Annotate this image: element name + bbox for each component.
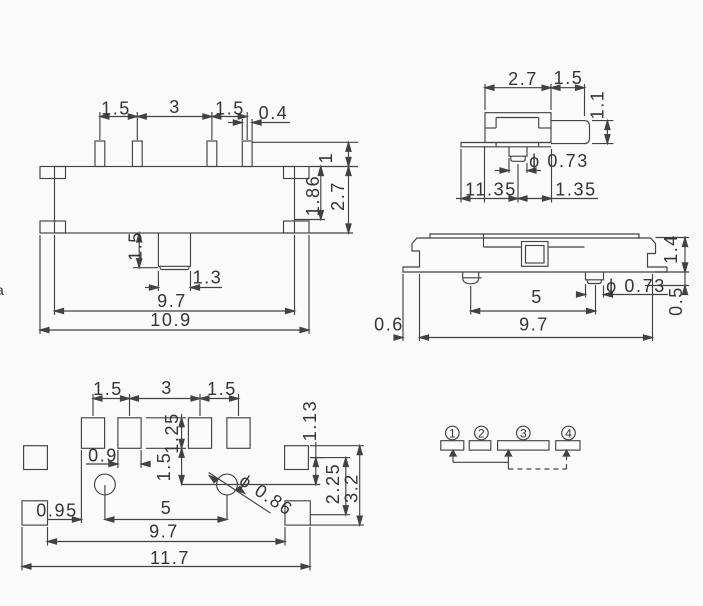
dimension 11.7 footprint [22, 527, 310, 571]
svg-text:1.3: 1.3 [193, 268, 223, 288]
side view slider boss inner [526, 246, 545, 264]
front view mounting tab top-right [284, 167, 310, 179]
dimension 1.86 body [295, 167, 326, 220]
schematic terminal 3 [498, 441, 549, 450]
schematic pin number 1 [446, 426, 460, 440]
dimension 9.7 side view [420, 274, 653, 341]
footprint pad 2 [118, 418, 141, 449]
dimension dia 0.86 hole leader [209, 470, 297, 520]
front view mounting tab bottom-left [40, 221, 66, 233]
svg-text:1.5: 1.5 [93, 379, 123, 399]
schematic pin number 4 [562, 426, 576, 440]
side view right peg [586, 272, 604, 284]
svg-text:ϕ 0.86: ϕ 0.86 [236, 470, 297, 520]
scan artifact left edge [0, 282, 4, 298]
dimension 1.5 footprint left [93, 379, 130, 416]
dimension 1.13 side pad to hole [300, 400, 325, 485]
svg-text:1: 1 [449, 427, 456, 441]
svg-text:11.35: 11.35 [465, 180, 517, 200]
svg-text:1.25: 1.25 [162, 412, 182, 453]
dimension 1.4 side view [655, 234, 689, 272]
dimension 1.25 pad height [146, 412, 186, 453]
end view body [485, 113, 551, 143]
svg-text:1.5: 1.5 [101, 99, 131, 119]
schematic pin number 3 [517, 426, 531, 440]
dimension 0.6 side view tab [374, 274, 404, 341]
svg-text:0.6: 0.6 [374, 315, 404, 335]
dimension 0.9 pad width [86, 446, 150, 469]
svg-text:1.5: 1.5 [215, 99, 245, 119]
dimension 9.7 footprint [48, 522, 286, 546]
schematic terminal 1 [441, 441, 464, 450]
dimension 5 side view peg pitch [471, 285, 596, 315]
dimension 1.5 end view knob [551, 68, 585, 116]
svg-text:a: a [0, 282, 4, 298]
dimension 9.7 front view [55, 235, 295, 315]
svg-text:1.4: 1.4 [661, 234, 681, 264]
svg-text:ϕ 0.73: ϕ 0.73 [529, 151, 589, 171]
svg-text:0.95: 0.95 [36, 501, 77, 521]
svg-text:3.2: 3.2 [342, 473, 362, 503]
side view slider boss outer [522, 242, 549, 267]
schematic contact arrow pin 4 [563, 450, 569, 456]
svg-text:1.5: 1.5 [154, 452, 174, 482]
svg-text:3: 3 [520, 427, 527, 441]
dimension 1.5 knob height [126, 231, 159, 268]
dimension 1.5 pin pitch right [212, 99, 247, 141]
front view pin 2 [132, 141, 142, 167]
svg-text:10.9: 10.9 [150, 310, 191, 330]
dimension 10.9 front view [40, 235, 309, 334]
side view inner edge line [430, 234, 639, 247]
svg-text:3: 3 [169, 97, 181, 117]
svg-text:ϕ 0.73: ϕ 0.73 [606, 276, 666, 296]
hole right center line [226, 495, 228, 520]
svg-text:1: 1 [316, 152, 336, 164]
dimension 0.95 footprint [36, 450, 81, 523]
dimension 3.2 footprint [310, 446, 364, 525]
footprint hole right [217, 474, 238, 495]
footprint pad 4 [227, 418, 250, 449]
svg-text:11.7: 11.7 [150, 548, 190, 568]
svg-text:2: 2 [478, 427, 485, 441]
dimension chain 1 1.35 1.35 end view [456, 146, 598, 203]
svg-text:9.7: 9.7 [519, 315, 549, 335]
svg-text:1.86: 1.86 [303, 175, 323, 216]
dimension 2.25 footprint [310, 458, 350, 515]
footprint side pad right [285, 446, 309, 470]
schematic contact arrow pin 3 [505, 450, 511, 456]
footprint corner pad bottom-left [22, 501, 48, 525]
svg-text:1.13: 1.13 [300, 400, 320, 441]
schematic pin number 2 [475, 426, 489, 440]
svg-text:1.35: 1.35 [555, 180, 596, 200]
footprint pad 3 [188, 418, 211, 449]
front view switch body [55, 167, 295, 234]
side view left peg [463, 272, 482, 284]
svg-text:5: 5 [531, 287, 543, 307]
end view flange [461, 143, 551, 147]
schematic wire pin1 to pin3 [453, 450, 508, 469]
svg-text:0.5: 0.5 [666, 286, 686, 316]
footprint hole left [95, 474, 116, 495]
svg-text:9.7: 9.7 [149, 522, 179, 542]
schematic dashed wire pin3 to pin4 [508, 452, 566, 469]
dimension 1.5 pin pitch left [100, 99, 137, 141]
side view body outline [403, 234, 667, 272]
svg-text:0.4: 0.4 [259, 103, 289, 123]
dimension 5 hole pitch [105, 498, 227, 522]
schematic terminal 4 [556, 441, 580, 450]
dimension 2.7 body height [309, 167, 353, 234]
front view pin 1 [95, 141, 105, 167]
svg-text:1.5: 1.5 [126, 231, 146, 261]
end view locating peg [509, 147, 527, 162]
svg-text:9.7: 9.7 [157, 291, 187, 311]
dimension 1.1 knob height [588, 90, 614, 144]
svg-text:4: 4 [565, 427, 572, 441]
svg-text:1.5: 1.5 [207, 379, 237, 399]
svg-text:1.1: 1.1 [588, 90, 608, 120]
end view actuator knob [551, 121, 590, 144]
footprint side pad left [24, 446, 48, 470]
dimension 1.5 footprint right [200, 379, 239, 416]
dimension 0.5 side view [645, 263, 689, 316]
svg-text:2.25: 2.25 [323, 463, 343, 504]
dimension 2.7 end view [485, 69, 551, 110]
dimension 1.3 knob width [145, 268, 222, 292]
schematic terminal 2 [469, 441, 491, 450]
front view slider knob [158, 233, 190, 270]
front view mounting tab bottom-right [284, 221, 310, 233]
footprint corner pad bottom-right [285, 501, 310, 525]
dimension 0.4 pin width [228, 103, 290, 140]
footprint pad 1 [81, 418, 104, 449]
front view pin 4 [242, 141, 252, 167]
svg-text:2.7: 2.7 [508, 69, 538, 89]
dimension dia 0.73 side view peg [577, 276, 669, 298]
svg-text:1.5: 1.5 [554, 68, 584, 88]
svg-text:0.9: 0.9 [88, 446, 118, 466]
dimension dia 0.73 end view peg [495, 151, 589, 173]
front view pin 3 [207, 141, 217, 167]
front view mounting tab top-left [40, 167, 66, 179]
svg-text:3: 3 [161, 378, 173, 398]
dimension 3 pin pitch middle [137, 97, 212, 140]
svg-text:5: 5 [161, 498, 173, 518]
dimension 1.5 pad to hole [154, 448, 184, 484]
hole left center line [104, 485, 106, 520]
svg-text:2.7: 2.7 [328, 181, 348, 211]
schematic contact arrow pin 1 [450, 450, 456, 456]
dimension 3 footprint [130, 378, 201, 416]
hole center line horizontal [182, 484, 321, 486]
dimension 1 pin height [252, 142, 358, 166]
